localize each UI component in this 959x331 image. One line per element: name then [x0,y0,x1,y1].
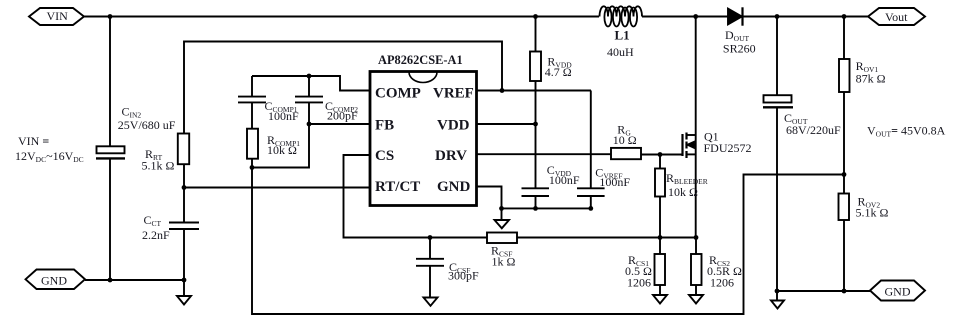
svg-text:VIN =: VIN = [18,134,49,148]
junction GND left / CIN2 [108,278,113,283]
junction L1 out / Q1 drain [693,14,698,19]
svg-text:1206: 1206 [627,276,651,290]
wire VREF loop to RRT [184,42,502,134]
wire RRT to RT/CT node [183,165,185,188]
wire diode to Vout [743,16,869,18]
node GND left connector [26,270,86,290]
capacitor CCOMP2 [295,76,323,124]
svg-text:CCT: CCT [144,213,162,228]
capacitor CVDD [522,124,550,208]
wire CS sense line [517,237,696,239]
junction Vout rail / COUT [775,14,780,19]
resistor ROV2 [839,175,850,292]
ground symbol GND pin [495,208,510,228]
svg-text:10k Ω: 10k Ω [668,185,698,199]
junction CS net / Q1 source / RCS2 [694,235,699,240]
junction GND right / ROV2 [842,289,847,294]
svg-text:SR260: SR260 [723,41,756,55]
capacitor CVREF [577,91,605,209]
junction VIN rail / RVDD [533,14,538,19]
svg-text:68V/220uF: 68V/220uF [786,123,841,137]
svg-text:10k Ω: 10k Ω [267,143,297,157]
svg-text:VREF: VREF [433,86,474,102]
ground symbol RCS2 [689,295,703,304]
junction RT/CT / RRT / CCT [182,185,187,190]
wire RG to gate [641,154,683,156]
junction Vout rail / ROV1 [842,14,847,19]
junction CS net / CCSF [428,235,433,240]
node Vout connector [868,8,925,25]
svg-text:4.7 Ω: 4.7 Ω [545,65,572,79]
svg-text:GND: GND [41,274,67,288]
wire CS line [344,155,488,238]
junction GND pin / ground [499,206,504,211]
junction FB / CCOMP2 bottom [307,122,312,127]
resistor RCOMP1 [247,129,258,159]
svg-text:L1: L1 [615,27,630,42]
resistor RRT [178,134,189,165]
wire VIN to L1 [84,16,599,18]
resistor RBLEEDER [655,155,665,238]
svg-text:FB: FB [375,118,394,134]
svg-text:25V/680 uF: 25V/680 uF [118,118,176,132]
svg-text:GND: GND [885,284,911,298]
svg-text:VDD: VDD [437,118,470,134]
resistor RCS1 [655,238,666,296]
svg-text:5.1k Ω: 5.1k Ω [856,206,889,220]
inductor L1 [600,6,643,26]
svg-text:200pF: 200pF [327,108,358,122]
capacitor CCOMP1 [238,76,266,129]
svg-text:VIN: VIN [47,9,69,23]
svg-text:1206: 1206 [710,276,734,290]
svg-text:1k Ω: 1k Ω [492,255,516,269]
resistor RVDD [530,17,541,125]
svg-text:VOUT= 45V0.8A: VOUT= 45V0.8A [867,124,946,139]
svg-text:100nF: 100nF [268,109,299,123]
svg-text:40uH: 40uH [607,45,634,59]
junction CS net / RBLEEDER / RCS1 [658,235,663,240]
wire L1 to diode [642,16,728,18]
wire GND pin [477,187,591,209]
resistor RCS2 [691,238,702,296]
svg-text:10 Ω: 10 Ω [613,133,637,147]
svg-text:COMP: COMP [375,86,421,102]
svg-text:2.2nF: 2.2nF [142,228,170,242]
svg-text:GND: GND [437,179,471,195]
wire RT/CT line [184,187,370,189]
IC U1 AP8262CSE-A1 body [370,72,477,206]
wire GND left [85,279,184,281]
junction GND left / CCT [182,278,187,283]
resistor ROV1 [839,17,850,175]
node VIN connector [29,8,84,25]
junction gate node / RBLEEDER [658,152,663,157]
resistor RCSF [487,233,517,244]
svg-text:CIN2: CIN2 [122,104,142,119]
junction GND net / CVDD [533,206,538,211]
resistor RG [611,148,641,159]
junction divider tap ROV1/ROV2 [842,172,847,177]
wire GND right [777,290,870,292]
junction GND right / COUT [775,289,780,294]
junction VDD / RVDD / CVDD [533,122,538,127]
wire FB node [309,123,370,125]
node GND right connector [870,281,925,301]
svg-text:RBLEEDER: RBLEEDER [666,171,708,186]
svg-text:100nF: 100nF [599,175,630,189]
capacitor CIN2 [96,17,125,281]
svg-text:87k Ω: 87k Ω [856,71,886,85]
svg-text:FDU2572: FDU2572 [704,141,752,155]
svg-text:CS: CS [375,148,394,164]
wire VREF line [477,90,592,92]
wire FB feedback bottom loop [252,168,844,315]
diode DOUT SR260 [728,7,743,25]
capacitor COUT [763,17,793,292]
wire DRV line [477,153,612,155]
ground symbol left [177,280,191,305]
svg-text:Vout: Vout [885,10,908,24]
junction COMP net / CCOMP2 top [307,74,312,79]
svg-text:12VDC~16VDC: 12VDC~16VDC [15,149,84,164]
junction GND net / CVREF [588,206,593,211]
svg-text:300pF: 300pF [448,269,479,283]
svg-text:5.1k Ω: 5.1k Ω [142,158,175,172]
svg-text:AP8262CSE-A1: AP8262CSE-A1 [378,53,463,67]
wire COMP top net [252,76,370,91]
svg-text:RT/CT: RT/CT [375,179,420,195]
svg-text:100nF: 100nF [549,173,580,187]
wire VDD line [477,123,536,125]
capacitor CCT [169,188,199,281]
ground symbol RCS1 [653,295,667,304]
junction VIN rail / CIN2 [108,14,113,19]
svg-text:DRV: DRV [435,148,467,164]
ground symbol CCSF [424,298,438,306]
transistor Q1 FDU2572 [683,17,696,238]
capacitor CCSF [416,238,444,298]
junction VREF / RRT loop [500,88,505,93]
ground symbol right [771,291,784,309]
junction RCOMP1 bottom / FB loop [250,165,255,170]
